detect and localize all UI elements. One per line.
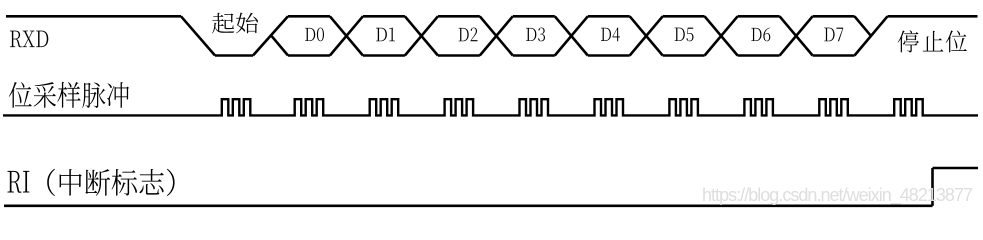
- signal label 位采样脉冲 (bit sampling pulses): [9, 82, 129, 108]
- bit label D4: [601, 28, 620, 42]
- wire D3 bus-valid top rail: [513, 15, 555, 18]
- wire D1 bus-valid bottom rail: [363, 54, 405, 57]
- wire D0 bus-valid top rail: [288, 15, 330, 18]
- wire D2 bus-valid bottom rail: [438, 54, 480, 57]
- wire sampling-pulse baseline with 10 triple-pulse groups: [3, 99, 978, 115]
- node D7/stop transition (data valid close): [855, 16, 888, 55]
- wire D2 bus-valid top rail: [438, 15, 480, 18]
- wire D6 bus-valid top rail: [738, 15, 780, 18]
- wire D7 bus-valid top rail: [813, 15, 855, 18]
- signal label RXD: [10, 31, 48, 48]
- node D2/D3 crossover transition: [480, 16, 513, 55]
- node D5/D6 crossover transition: [705, 16, 738, 55]
- label 停止位 (stop bit): [898, 30, 967, 52]
- wire D0 bus-valid bottom rail: [288, 54, 330, 57]
- node D0/D1 crossover transition: [330, 16, 363, 55]
- wire RXD start-bit low segment: [215, 54, 253, 57]
- bit label D3: [526, 28, 545, 42]
- svg-text:https://blog.csdn.net/weixin_4: https://blog.csdn.net/weixin_48213877: [702, 185, 973, 206]
- node start/D0 transition (data valid open): [253, 16, 288, 55]
- node D4/D5 crossover transition: [630, 16, 663, 55]
- wire D7 bus-valid bottom rail: [813, 54, 855, 57]
- wire D4 bus-valid bottom rail: [588, 54, 630, 57]
- wire D5 bus-valid bottom rail: [663, 54, 705, 57]
- wire D4 bus-valid top rail: [588, 15, 630, 18]
- bit label D0: [305, 28, 324, 42]
- signal label RI: [7, 171, 29, 193]
- bit label D6: [751, 28, 770, 42]
- bit label D7: [824, 28, 843, 42]
- bit label D1: [376, 28, 395, 42]
- wire D5 bus-valid top rail: [663, 15, 705, 18]
- node D1/D2 crossover transition: [405, 16, 438, 55]
- wire RXD falling edge (start bit begin): [181, 16, 215, 55]
- wire RI rising edge: [931, 168, 934, 206]
- wire D6 bus-valid bottom rail: [738, 54, 780, 57]
- bit label D5: [674, 28, 693, 42]
- wire RXD stop-bit high segment: [888, 15, 978, 18]
- wire D1 bus-valid top rail: [363, 15, 405, 18]
- label 起始 (start bit): [212, 13, 258, 34]
- node D6/D7 crossover transition: [780, 16, 813, 55]
- label （中断标志） (interrupt flag): [47, 169, 174, 196]
- node D3/D4 crossover transition: [555, 16, 588, 55]
- wire RI low segment: [4, 205, 933, 208]
- wire RXD idle-high segment: [6, 15, 181, 18]
- wire D3 bus-valid bottom rail: [513, 54, 555, 57]
- wire RI high segment: [933, 167, 979, 170]
- bit label D2: [459, 28, 478, 42]
